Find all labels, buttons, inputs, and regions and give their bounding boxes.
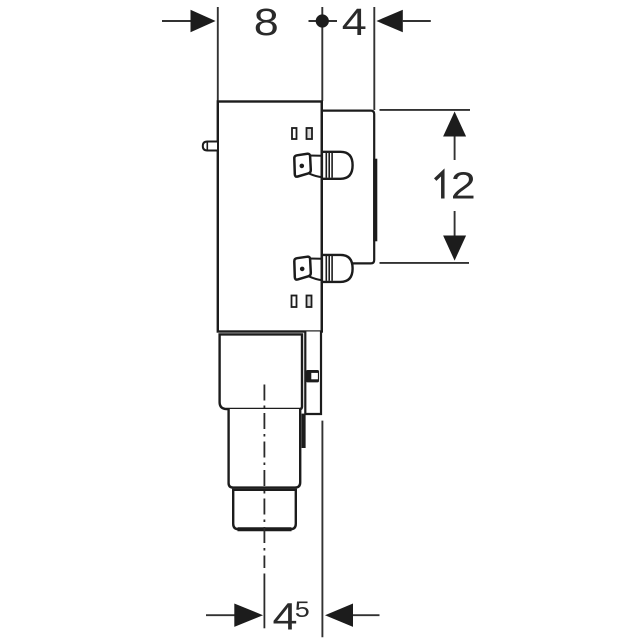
svg-text:4: 4 (342, 2, 367, 44)
svg-text:4: 4 (273, 597, 298, 639)
svg-text:2: 2 (451, 166, 476, 208)
svg-text:5: 5 (295, 597, 310, 622)
svg-text:8: 8 (254, 2, 279, 44)
